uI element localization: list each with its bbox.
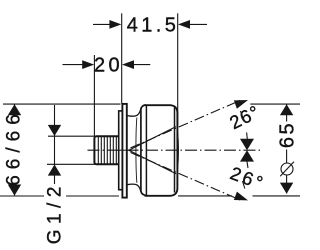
angle arc stub above bowtie bbox=[246, 133, 249, 141]
angle bowtie upper arrow bbox=[240, 139, 254, 150]
dim G12 top arrow bbox=[48, 125, 61, 136]
svg-text:41.5: 41.5 bbox=[127, 15, 180, 37]
neck waist curve bbox=[135, 118, 138, 183]
angle bowtie lower arrow bbox=[240, 150, 254, 161]
dim G12 vertical line bbox=[54, 105, 56, 184]
node bottom tangent line left bbox=[0, 195, 44, 197]
dim 41.5 left extension line bbox=[121, 13, 123, 104]
node bottom tangent line right bbox=[178, 195, 232, 197]
svg-text:26°: 26° bbox=[226, 101, 263, 133]
dim 20 right tail bbox=[133, 64, 150, 66]
neck top edge bbox=[127, 109, 141, 116]
node bottom tangent line right b bbox=[253, 195, 301, 197]
svg-text:65: 65 bbox=[276, 121, 298, 148]
dim 20 left arrow bbox=[82, 60, 94, 69]
spray ray upper dash-dot bbox=[131, 100, 241, 148]
dome groove line bbox=[145, 105, 147, 196]
dim 66/66 label mask bbox=[4, 116, 25, 186]
dim 20 left tail bbox=[63, 64, 92, 66]
dim dia65 bottom arrow bbox=[280, 183, 293, 194]
svg-text:G1/2: G1/2 bbox=[45, 181, 66, 244]
dim 41.5 left tail bbox=[93, 23, 111, 25]
dim 66/66 top arrow bbox=[8, 104, 21, 115]
svg-text:20: 20 bbox=[94, 55, 123, 77]
svg-text:26°: 26° bbox=[227, 162, 268, 194]
dim 66/66 bottom arrow bbox=[8, 185, 21, 196]
dim 41.5 left arrow bbox=[109, 20, 121, 29]
dim dia65 label mask bbox=[279, 122, 295, 150]
thread hatch lines bbox=[98, 137, 116, 164]
spray ray lower dash-dot bbox=[131, 153, 241, 201]
angle arc stub above lower arrow bbox=[243, 181, 245, 189]
escutcheon disc bbox=[122, 104, 126, 198]
node bottom tangent line left b bbox=[66, 195, 119, 197]
thread tangent bottom line bbox=[47, 163, 95, 165]
wire centerline over flange bbox=[118, 149, 129, 151]
node top tangent line y=104 right bbox=[250, 103, 300, 105]
dome face inner line bbox=[174, 108, 176, 193]
node top tangent line y=104 left bbox=[3, 103, 121, 105]
dim 41.5 right tail bbox=[189, 23, 207, 25]
dim dia65 diameter symbol circle bbox=[281, 163, 293, 175]
dim 41.5 right extension line bbox=[177, 13, 179, 125]
angle arc stub below upper arrow bbox=[241, 111, 244, 118]
wire centerline dash-dot bbox=[88, 149, 261, 151]
neck bottom edge bbox=[127, 184, 141, 191]
dim dia65 diameter symbol slash bbox=[280, 162, 294, 177]
svg-text:66/66: 66/66 bbox=[4, 108, 25, 186]
dim 20 left extension line bbox=[93, 55, 95, 136]
angle arc stub below bowtie bbox=[247, 161, 248, 169]
dim dia65 vertical line bbox=[286, 105, 288, 194]
dim dia65 top arrow bbox=[280, 104, 293, 115]
dim 41.5 right arrow bbox=[178, 20, 190, 29]
thread body outline bbox=[94, 136, 119, 164]
dim G12 bottom arrow bbox=[48, 165, 61, 176]
spray ray upper arrowhead bbox=[234, 100, 248, 109]
dome face bulge bbox=[177, 131, 180, 169]
spray cone lower leg solid bbox=[129, 150, 176, 174]
thread tangent top line bbox=[48, 135, 95, 137]
spray cone upper leg solid bbox=[129, 127, 176, 151]
spray ray lower arrowhead bbox=[234, 192, 248, 201]
rear ring disc bbox=[119, 111, 123, 190]
dome outline bbox=[145, 105, 178, 196]
dome rear edge bbox=[141, 105, 146, 195]
dim 20 right arrow bbox=[122, 60, 134, 69]
dim 66/66 vertical line bbox=[14, 105, 16, 196]
